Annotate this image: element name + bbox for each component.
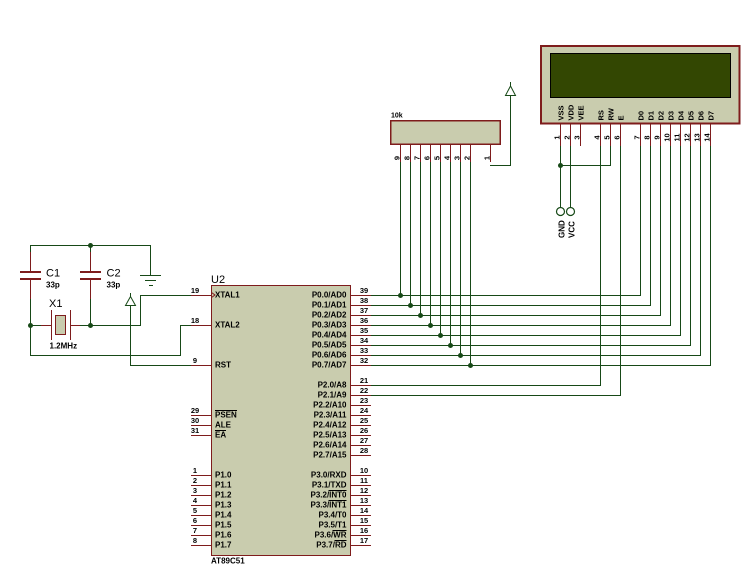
- U2 pin 34 P0.5/AD5: [312, 336, 371, 350]
- svg-text:7: 7: [193, 526, 197, 535]
- U2 pin 25 P2.4/A12: [313, 416, 371, 430]
- svg-text:P3.5/T1: P3.5/T1: [318, 521, 347, 530]
- svg-text:15: 15: [360, 516, 368, 525]
- svg-text:P2.2/A10: P2.2/A10: [313, 401, 347, 410]
- U2 pin 10 P3.0/RXD: [311, 466, 371, 480]
- svg-text:21: 21: [360, 376, 368, 385]
- svg-text:EA: EA: [215, 431, 226, 440]
- junction RP1 pin 3 / P0.6: [458, 353, 463, 358]
- svg-text:VDD: VDD: [567, 104, 576, 120]
- svg-text:P1.5: P1.5: [215, 521, 232, 530]
- wire P0.6/AD6 to LCD D6: [371, 146, 701, 356]
- svg-text:11: 11: [673, 134, 682, 142]
- svg-text:6: 6: [423, 156, 432, 160]
- U2 pin 2 P1.1: [191, 476, 232, 490]
- wire P2.0/A8 to LCD RS: [371, 146, 601, 386]
- svg-text:P3.7/RD: P3.7/RD: [316, 541, 346, 550]
- svg-text:D5: D5: [687, 111, 696, 121]
- svg-text:1.2MHz: 1.2MHz: [50, 342, 78, 351]
- LCD pin 9 D2: [653, 111, 666, 146]
- U2 pin 1 P1.0: [191, 466, 232, 480]
- svg-text:ALE: ALE: [215, 421, 232, 430]
- LCD pin 5 RW: [603, 107, 616, 146]
- junction VSS / RW rail: [558, 163, 563, 168]
- svg-text:X1: X1: [49, 298, 62, 310]
- svg-text:D0: D0: [637, 111, 646, 121]
- LCD pin 4 RS: [593, 110, 606, 146]
- svg-text:39: 39: [360, 286, 368, 295]
- svg-text:AT89C51: AT89C51: [211, 557, 245, 566]
- svg-text:16: 16: [360, 526, 368, 535]
- svg-text:5: 5: [433, 156, 442, 160]
- svg-text:6: 6: [193, 516, 197, 525]
- svg-text:D6: D6: [697, 111, 706, 121]
- svg-text:P0.5/AD5: P0.5/AD5: [312, 341, 347, 350]
- svg-text:12: 12: [360, 486, 368, 495]
- U2 pin 15 P3.5/T1: [318, 516, 371, 530]
- LCD pin 11 D4: [673, 110, 686, 146]
- U2 pin 35 P0.4/AD4: [312, 326, 371, 340]
- LCD pin 2 VDD: [563, 104, 576, 146]
- junction RP1 pin 7 / P0.2: [418, 313, 423, 318]
- wire P0.1/AD1 to LCD D1: [371, 146, 651, 306]
- svg-text:8: 8: [643, 135, 652, 139]
- U2 pin 31 EA: [191, 426, 227, 440]
- svg-text:38: 38: [360, 296, 368, 305]
- svg-text:27: 27: [360, 436, 368, 445]
- U2 pin 17 P3.7/RD: [316, 536, 371, 550]
- svg-text:3: 3: [193, 486, 197, 495]
- U2 pin 26 P2.5/A13: [313, 426, 371, 440]
- wire C2 top leg: [90, 245, 91, 272]
- U2 pin 27 P2.6/A14: [313, 436, 371, 450]
- svg-text:25: 25: [360, 416, 368, 425]
- svg-text:PSEN: PSEN: [215, 411, 237, 420]
- svg-text:28: 28: [360, 446, 368, 455]
- svg-text:8: 8: [193, 536, 197, 545]
- svg-text:2: 2: [193, 476, 197, 485]
- svg-text:P0.4/AD4: P0.4/AD4: [312, 331, 347, 340]
- U2 pin 23 P2.2/A10: [313, 396, 371, 410]
- svg-text:P3.0/RXD: P3.0/RXD: [311, 471, 347, 480]
- svg-text:7: 7: [633, 135, 642, 139]
- svg-text:13: 13: [360, 496, 368, 505]
- svg-text:9: 9: [653, 135, 662, 139]
- RP1 pin 3: [453, 145, 462, 162]
- U2 pin 38 P0.1/AD1: [312, 296, 371, 310]
- U2 pin 30 ALE: [191, 416, 232, 430]
- U2 pin 5 P1.4: [191, 506, 232, 520]
- U2 pin 3 P1.2: [191, 486, 232, 500]
- U2 pin 9 RST: [191, 356, 231, 370]
- U2 pin 28 P2.7/A15: [313, 446, 371, 460]
- wire RP1 pin 6 column: [430, 162, 431, 325]
- RP1 pin 7: [413, 145, 422, 162]
- svg-text:VCC: VCC: [568, 221, 577, 238]
- svg-text:10: 10: [360, 466, 368, 475]
- U2 pin 11 P3.1/TXD: [312, 476, 371, 490]
- RP1 pin 6: [423, 145, 432, 162]
- U2 pin 13 P3.3/INT1: [310, 496, 371, 510]
- svg-text:23: 23: [360, 396, 368, 405]
- junction crystal left node: [28, 323, 33, 328]
- svg-text:RST: RST: [215, 361, 231, 370]
- wire P0.0/AD0 to LCD D0: [371, 146, 641, 296]
- wire RP1 pin 4 column: [450, 162, 451, 345]
- svg-text:D7: D7: [707, 111, 716, 121]
- svg-text:P1.1: P1.1: [215, 481, 232, 490]
- junction RP1 pin 8 / P0.1: [408, 303, 413, 308]
- LCD pin 1 VSS: [553, 105, 566, 146]
- svg-text:1: 1: [483, 156, 492, 160]
- svg-text:34: 34: [360, 336, 369, 345]
- svg-text:U2: U2: [211, 274, 225, 286]
- LCD pin 14 D7: [703, 111, 716, 146]
- svg-text:18: 18: [191, 316, 199, 325]
- power arrow at RP1 pin 1: [506, 82, 516, 96]
- svg-text:17: 17: [360, 536, 368, 545]
- svg-text:14: 14: [360, 506, 369, 515]
- svg-text:5: 5: [603, 135, 612, 139]
- svg-text:32: 32: [360, 356, 368, 365]
- svg-text:31: 31: [191, 426, 199, 435]
- U2 pin 19 XTAL1: [191, 286, 240, 300]
- svg-text:33p: 33p: [107, 281, 121, 290]
- svg-text:19: 19: [191, 286, 199, 295]
- svg-text:2: 2: [463, 156, 472, 160]
- U2 pin 22 P2.1/A9: [318, 386, 371, 400]
- svg-text:3: 3: [453, 156, 462, 160]
- svg-text:D1: D1: [647, 111, 656, 121]
- U2 pin 29 PSEN: [191, 406, 237, 420]
- wire RP1 pin 1 to power arrow: [490, 96, 511, 166]
- svg-text:10k: 10k: [391, 113, 403, 120]
- svg-text:10: 10: [663, 133, 672, 141]
- svg-text:P0.2/AD2: P0.2/AD2: [312, 311, 347, 320]
- RP1 pin 8: [403, 145, 412, 162]
- VCC terminal: [567, 208, 577, 239]
- svg-text:35: 35: [360, 326, 368, 335]
- junction RP1 pin 5 / P0.4: [438, 333, 443, 338]
- svg-text:8: 8: [403, 156, 412, 160]
- wire RP1 pin 5 column: [440, 162, 441, 335]
- U2 pin 37 P0.2/AD2: [312, 306, 371, 320]
- wire RP1 pin 3 column: [460, 162, 461, 355]
- svg-text:1: 1: [193, 466, 197, 475]
- wire RP1 pin 9 column: [400, 162, 401, 295]
- junction crystal right node: [88, 323, 93, 328]
- svg-text:9: 9: [193, 356, 197, 365]
- wire C1 top leg: [30, 245, 31, 272]
- svg-text:36: 36: [360, 316, 368, 325]
- wire P2.1/A9 to LCD E: [371, 146, 621, 396]
- svg-text:P2.4/A12: P2.4/A12: [313, 421, 347, 430]
- svg-text:5: 5: [193, 506, 197, 515]
- svg-text:P1.3: P1.3: [215, 501, 232, 510]
- svg-text:9: 9: [393, 156, 402, 160]
- wire crystal left node stub: [30, 325, 42, 326]
- U2 pin 24 P2.3/A11: [314, 406, 371, 420]
- svg-text:P2.7/A15: P2.7/A15: [313, 451, 347, 460]
- wire RST to power arrow: [130, 306, 191, 366]
- svg-text:VSS: VSS: [557, 105, 566, 120]
- svg-text:P1.2: P1.2: [215, 491, 232, 500]
- U2 pin 14 P3.4/T0: [318, 506, 371, 520]
- wire P0.3/AD3 to LCD D3: [371, 146, 671, 326]
- RP1 pin 9: [393, 145, 402, 162]
- svg-text:30: 30: [191, 416, 199, 425]
- resistor pack RP1 10k: [391, 113, 501, 145]
- svg-text:14: 14: [703, 133, 712, 142]
- wire RP1 pin 7 column: [420, 162, 421, 315]
- svg-text:XTAL1: XTAL1: [215, 291, 240, 300]
- junction RP1 pin 2 / P0.7: [468, 363, 473, 368]
- wire P0.2/AD2 to LCD D2: [371, 146, 661, 316]
- LCD screen: [551, 54, 731, 98]
- wire P0.7/AD7 to LCD D7: [371, 146, 711, 366]
- power arrow at RST: [126, 293, 136, 306]
- svg-text:24: 24: [360, 406, 369, 415]
- svg-text:P3.4/T0: P3.4/T0: [318, 511, 347, 520]
- IC U2 AT89C51 body: [211, 274, 351, 566]
- svg-text:GND: GND: [558, 220, 567, 238]
- capacitor C1 33p: [20, 252, 60, 299]
- svg-text:11: 11: [360, 476, 368, 485]
- svg-text:E: E: [617, 115, 626, 120]
- junction RP1 pin 9 / P0.0: [398, 293, 403, 298]
- svg-text:7: 7: [413, 156, 422, 160]
- wire P0.5/AD5 to LCD D5: [371, 146, 691, 346]
- svg-text:RW: RW: [607, 107, 616, 120]
- svg-text:VEE: VEE: [577, 105, 586, 120]
- U2 pin 18 XTAL2: [191, 316, 240, 330]
- LCD pin 13 D6: [693, 111, 706, 146]
- RP1 pin 1: [483, 145, 492, 162]
- svg-text:C1: C1: [46, 268, 60, 280]
- svg-text:37: 37: [360, 306, 368, 315]
- svg-text:P3.6/WR: P3.6/WR: [314, 531, 346, 540]
- wire XTAL1 connection: [140, 295, 191, 326]
- svg-text:P1.7: P1.7: [215, 541, 232, 550]
- svg-text:C2: C2: [107, 268, 121, 280]
- U2 pin 32 P0.7/AD7: [312, 356, 371, 370]
- svg-text:D4: D4: [677, 110, 686, 120]
- wire crystal right node to XTAL1 drop: [80, 325, 141, 326]
- LCD module body: [541, 46, 740, 124]
- wire C2 bottom to crystal right node: [90, 280, 91, 326]
- svg-text:P0.0/AD0: P0.0/AD0: [312, 291, 347, 300]
- wire RP1 pin 8 column: [410, 162, 411, 305]
- svg-text:P1.4: P1.4: [215, 511, 232, 520]
- svg-text:29: 29: [191, 406, 199, 415]
- wire RP1 pin 2 column: [470, 162, 471, 365]
- junction RP1 pin 4 / P0.5: [448, 343, 453, 348]
- svg-text:P2.0/A8: P2.0/A8: [318, 381, 347, 390]
- wire ground drop: [150, 245, 151, 276]
- svg-text:P0.1/AD1: P0.1/AD1: [312, 301, 347, 310]
- wire top rail C1/C2/ground: [30, 245, 151, 246]
- svg-text:33p: 33p: [46, 281, 60, 290]
- svg-text:P0.3/AD3: P0.3/AD3: [312, 321, 347, 330]
- svg-text:26: 26: [360, 426, 368, 435]
- U2 pin 4 P1.3: [191, 496, 232, 510]
- LCD pin 3 VEE: [573, 105, 586, 146]
- wire LCD VDD to VCC terminal: [570, 146, 571, 207]
- RP1 pin 2: [463, 145, 472, 162]
- junction RP1 pin 6 / P0.3: [428, 323, 433, 328]
- U2 pin 33 P0.6/AD6: [312, 346, 371, 360]
- svg-text:XTAL2: XTAL2: [215, 321, 240, 330]
- svg-text:D2: D2: [657, 111, 666, 121]
- svg-text:33: 33: [360, 346, 368, 355]
- svg-text:12: 12: [683, 133, 692, 141]
- GND terminal: [557, 208, 567, 239]
- RP1 pin 5: [433, 145, 442, 162]
- svg-text:P1.0: P1.0: [215, 471, 232, 480]
- svg-text:P2.1/A9: P2.1/A9: [318, 391, 347, 400]
- U2 pin 16 P3.6/WR: [314, 526, 371, 540]
- svg-text:3: 3: [573, 135, 582, 139]
- svg-text:2: 2: [563, 135, 572, 139]
- svg-text:P2.6/A14: P2.6/A14: [313, 441, 347, 450]
- svg-text:1: 1: [553, 135, 562, 139]
- RP1 pin 4: [443, 145, 452, 162]
- svg-text:P1.6: P1.6: [215, 531, 232, 540]
- wire LCD RW to VSS rail: [560, 146, 611, 166]
- crystal X1 1.2MHz: [41, 298, 80, 351]
- capacitor C2 33p: [80, 252, 121, 299]
- LCD pin 7 D0: [633, 111, 646, 146]
- svg-text:6: 6: [613, 135, 622, 139]
- U2 pin 36 P0.3/AD3: [312, 316, 371, 330]
- svg-text:P0.7/AD7: P0.7/AD7: [312, 361, 347, 370]
- svg-text:D3: D3: [667, 111, 676, 121]
- U2 pin 7 P1.6: [191, 526, 232, 540]
- wire C1 bottom to crystal left node: [30, 280, 31, 326]
- U2 pin 39 P0.0/AD0: [312, 286, 371, 300]
- svg-text:RS: RS: [597, 110, 606, 120]
- svg-text:P2.5/A13: P2.5/A13: [313, 431, 347, 440]
- LCD pin 6 E: [613, 115, 626, 146]
- LCD pin 10 D3: [663, 111, 676, 146]
- svg-text:P2.3/A11: P2.3/A11: [314, 411, 347, 420]
- U2 pin 8 P1.7: [191, 536, 232, 550]
- svg-text:P3.3/INT1: P3.3/INT1: [310, 501, 347, 510]
- svg-text:P0.6/AD6: P0.6/AD6: [312, 351, 347, 360]
- U2 pin 21 P2.0/A8: [318, 376, 371, 390]
- svg-text:P3.1/TXD: P3.1/TXD: [312, 481, 347, 490]
- svg-text:22: 22: [360, 386, 368, 395]
- LCD pin 12 D5: [683, 111, 696, 146]
- U2 pin 12 P3.2/INT0: [310, 486, 371, 500]
- wire LCD VSS to GND terminal: [560, 146, 561, 207]
- junction top rail / C2: [88, 243, 93, 248]
- wire P0.4/AD4 to LCD D4: [371, 146, 681, 336]
- LCD pin 8 D1: [643, 111, 656, 146]
- wire XTAL2 connection: [30, 325, 191, 356]
- ground: [140, 275, 161, 286]
- svg-text:P3.2/INT0: P3.2/INT0: [310, 491, 347, 500]
- U2 pin 6 P1.5: [191, 516, 232, 530]
- svg-text:13: 13: [693, 133, 702, 141]
